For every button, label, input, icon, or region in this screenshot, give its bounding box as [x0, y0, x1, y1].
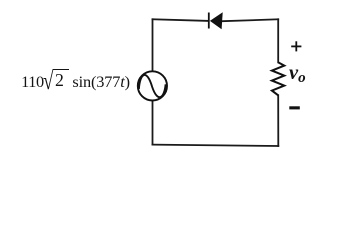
resistor R (zigzag) [272, 62, 284, 95]
plus polarity mark [291, 41, 301, 51]
wire left top segment [152, 19, 154, 71]
source label "2" under radical [55, 72, 64, 90]
minus polarity mark [289, 106, 300, 109]
wire top-right segment [223, 19, 278, 21]
source label radical overbar [53, 69, 69, 71]
output voltage label vo [289, 63, 306, 84]
wire right top segment [277, 19, 279, 62]
wire bottom segment [153, 145, 279, 146]
wire left bottom segment [152, 101, 154, 145]
wire right bottom segment [277, 95, 279, 146]
AC source sine symbol [139, 75, 166, 97]
source label radical sign [43, 68, 54, 94]
AC voltage source circle [138, 71, 167, 100]
diode D1 anode triangle [210, 12, 223, 29]
diode D1 cathode bar [208, 13, 210, 29]
source label "110" [21, 74, 44, 90]
wire top-left segment [153, 19, 209, 21]
source label "sin(377t)" [72, 74, 129, 90]
